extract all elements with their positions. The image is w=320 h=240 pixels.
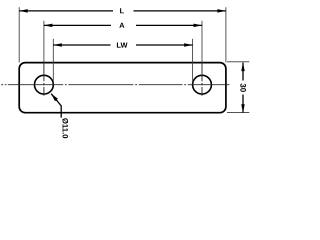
extension line 30 bottom — [227, 111, 249, 113]
arrow LW left — [53, 43, 62, 47]
extension line A right — [201, 21, 203, 63]
hole left — [35, 75, 54, 94]
hole right — [193, 75, 212, 94]
dimension line L — [19, 10, 113, 12]
extension line LW right — [192, 39, 194, 83]
extension line A left — [43, 21, 45, 63]
dimension line A — [44, 24, 111, 26]
centerline vertical right hole — [201, 63, 203, 82]
extension line LW left — [52, 39, 54, 83]
arrow L right — [217, 9, 226, 13]
dimension line LW — [53, 44, 110, 46]
centerline vertical left hole — [43, 63, 45, 82]
label A — [119, 23, 124, 28]
label diameter — [62, 118, 68, 138]
label 30 — [240, 83, 246, 91]
plate outline — [19, 63, 226, 113]
dimension line 30 — [242, 63, 244, 81]
arrow A right — [194, 24, 203, 28]
arrow L left — [19, 9, 28, 13]
extension line 30 top — [227, 61, 249, 63]
label L — [120, 8, 124, 13]
arrow leader — [51, 94, 58, 102]
extension line L right — [225, 7, 227, 62]
arrow 30 top — [241, 63, 245, 72]
leader line hole diameter — [51, 94, 61, 118]
arrow LW right — [184, 43, 193, 47]
label LW — [117, 43, 128, 48]
centerline horizontal — [1, 84, 3, 86]
extension line L left — [18, 7, 20, 62]
arrow A left — [44, 24, 53, 28]
arrow 30 bottom — [241, 104, 245, 113]
